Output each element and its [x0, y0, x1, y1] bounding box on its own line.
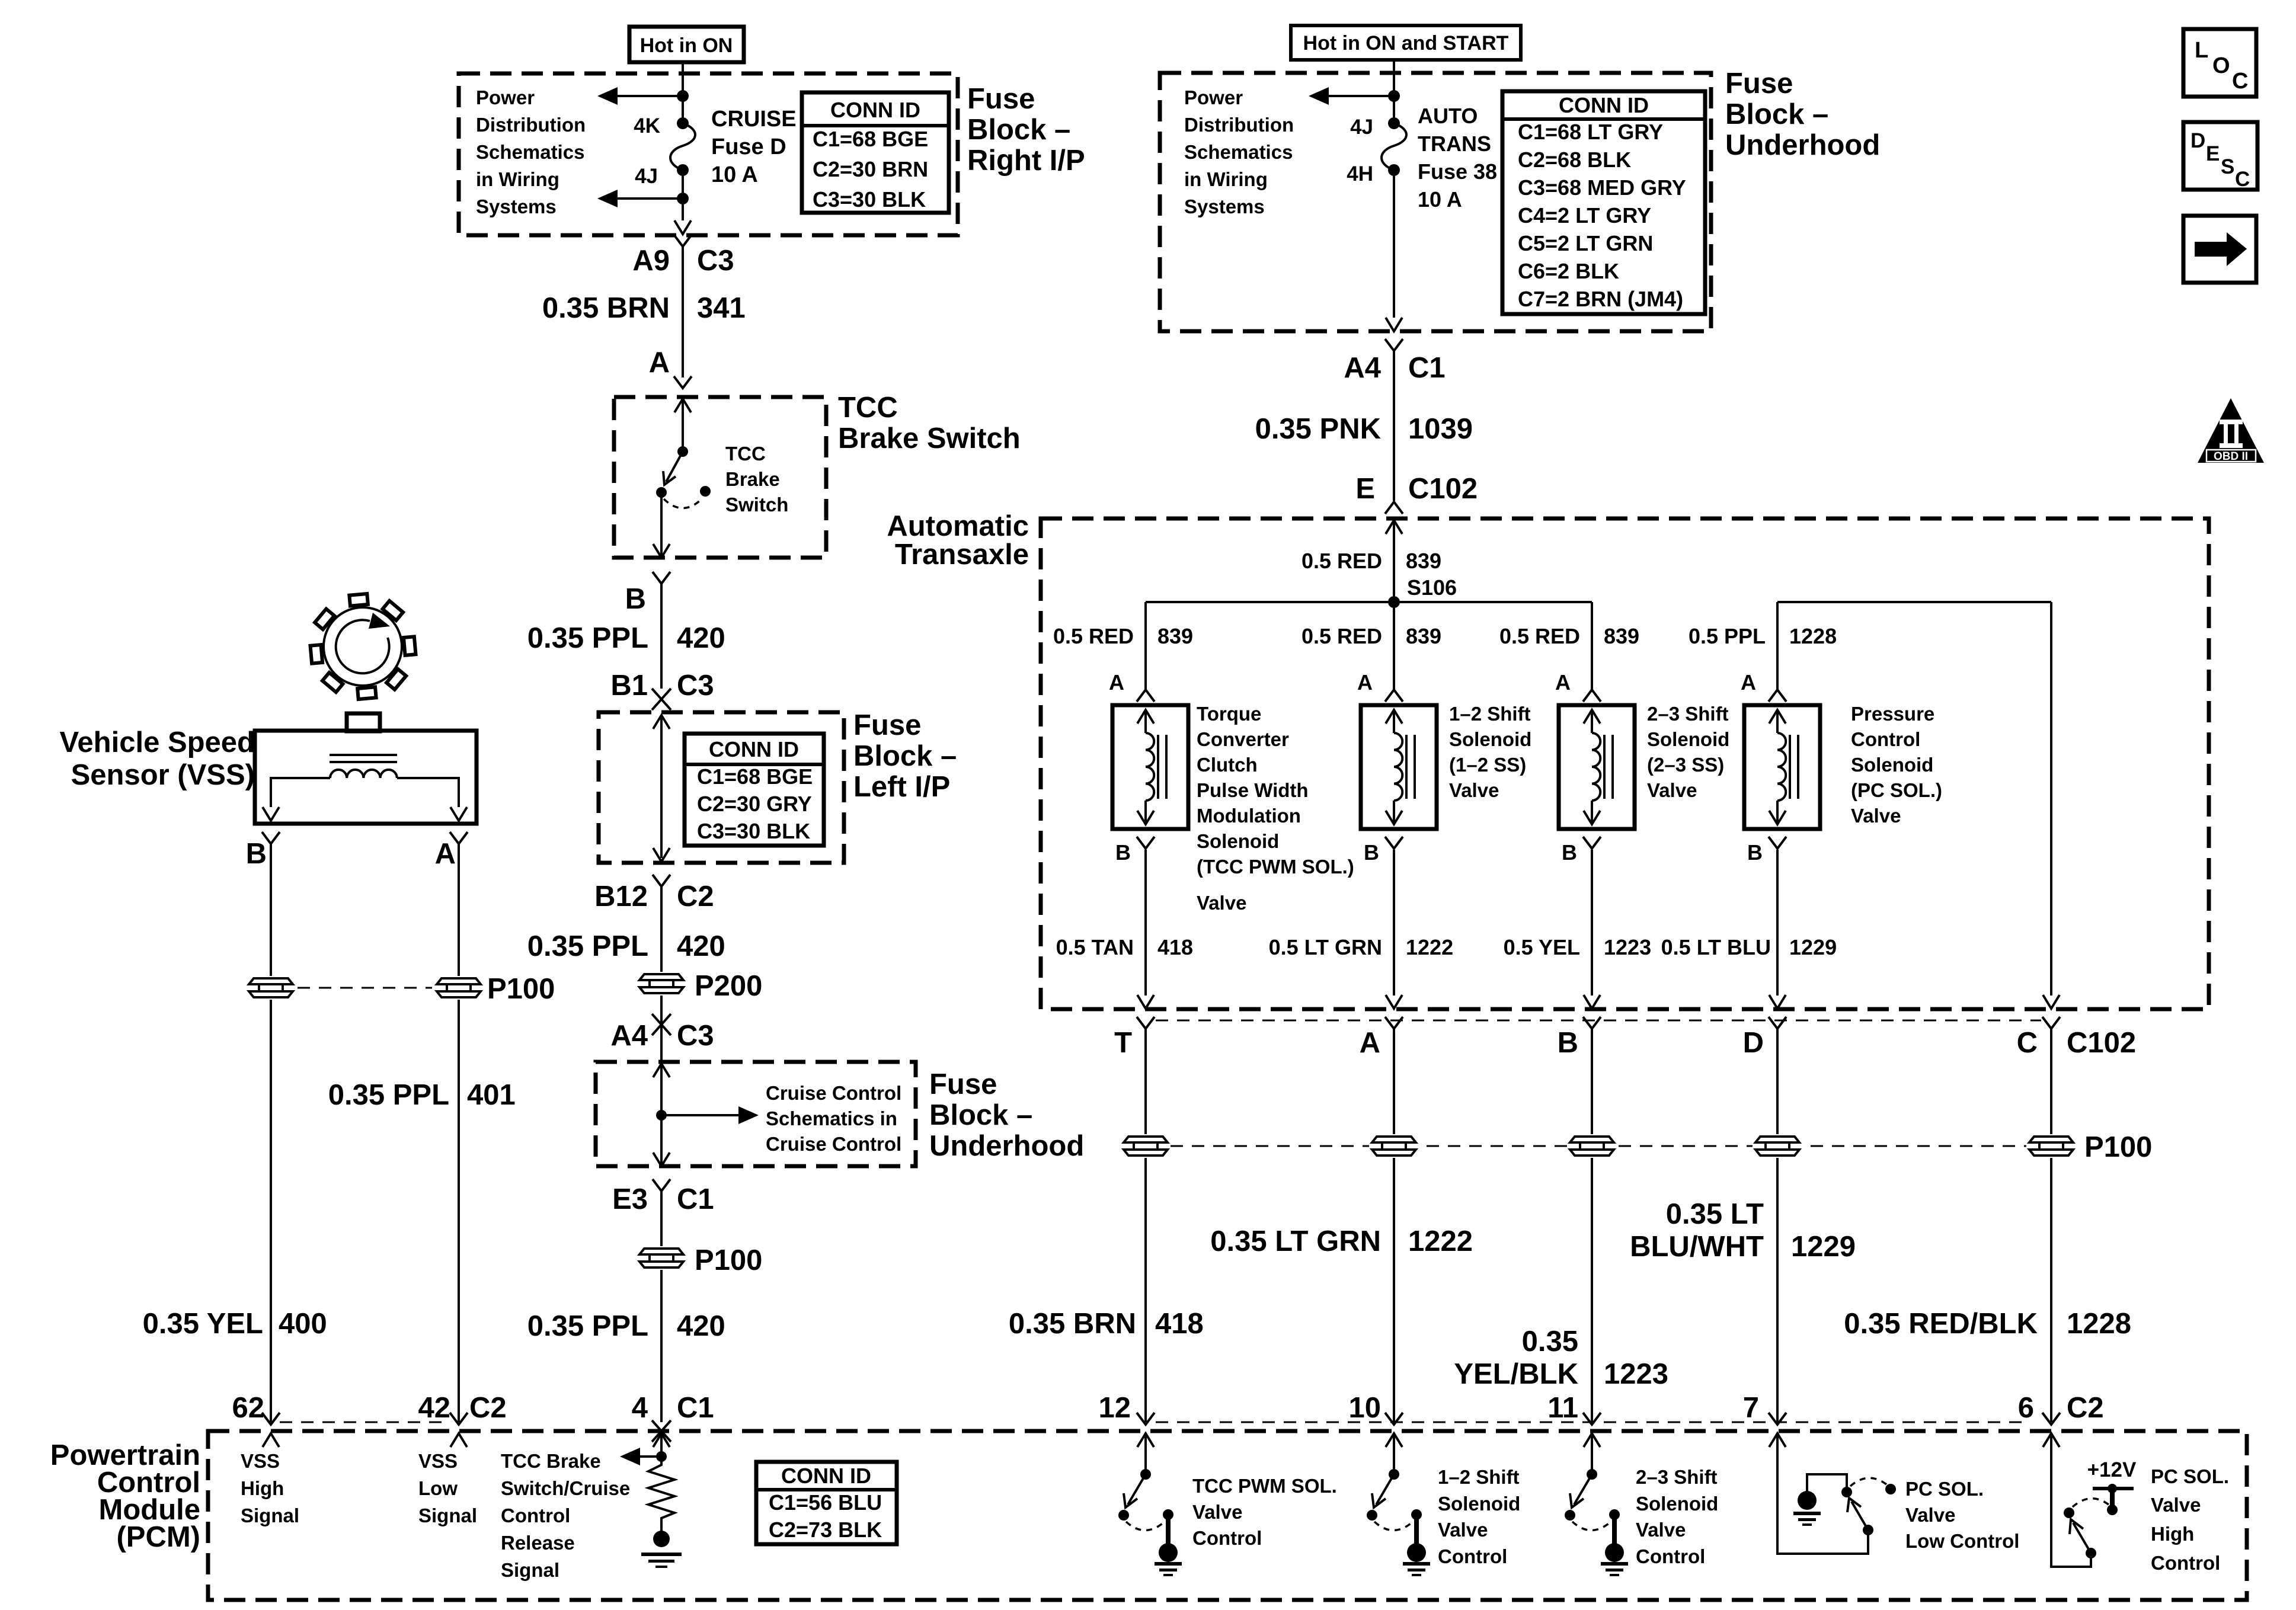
svg-text:A9: A9: [632, 245, 670, 277]
svg-text:(PC SOL.): (PC SOL.): [1851, 779, 1942, 801]
svg-text:C3: C3: [677, 1020, 714, 1052]
ground node dot: [653, 1531, 670, 1547]
svg-text:C3=68 MED GRY: C3=68 MED GRY: [1518, 175, 1686, 200]
icon OBD II triangle: [2198, 398, 2264, 463]
label Torque Converter Clutch PWM Solenoid: [1197, 703, 1354, 914]
svg-text:Valve: Valve: [1438, 1519, 1488, 1541]
svg-text:839: 839: [1406, 624, 1441, 648]
svg-text:Control: Control: [2151, 1552, 2220, 1574]
svg-text:P100: P100: [2084, 1131, 2152, 1163]
solenoid 1-2 shift (coil): [1361, 690, 1437, 849]
svg-text:Schematics: Schematics: [476, 141, 584, 163]
driver 1-2 shift solenoid (PCM): [1367, 1433, 1430, 1576]
connector P100 (center): [637, 1244, 762, 1276]
svg-text:C1=68 BGE: C1=68 BGE: [697, 764, 813, 789]
svg-text:Sensor (VSS): Sensor (VSS): [71, 759, 255, 791]
svg-text:11: 11: [1547, 1392, 1578, 1424]
svg-text:P100: P100: [487, 973, 555, 1005]
svg-text:0.5 LT GRN: 0.5 LT GRN: [1269, 935, 1382, 959]
svg-text:Block –: Block –: [929, 1099, 1032, 1131]
dashed box Fuse Block - Left I/P: [599, 712, 844, 863]
svg-text:Schematics: Schematics: [1184, 141, 1293, 163]
svg-text:C2=68 BLK: C2=68 BLK: [1518, 148, 1631, 172]
pin A4 / C1 labels: [1344, 352, 1445, 384]
pin C / C102 labels: [2017, 1027, 2137, 1059]
svg-text:1228: 1228: [1789, 624, 1837, 648]
svg-text:Right I/P: Right I/P: [967, 145, 1085, 177]
svg-text:Control: Control: [1851, 728, 1920, 750]
wire label 0.35 LT BLU/WHT 1229 (lower): [1630, 1198, 1856, 1263]
wire bus PPL 1228: [1777, 601, 2051, 603]
svg-text:Solenoid: Solenoid: [1851, 754, 1933, 776]
wire label 0.35 PPL 420 (lower): [527, 1310, 725, 1342]
svg-text:CRUISE: CRUISE: [711, 107, 797, 132]
arrow exit bottom Left I/P block: [653, 848, 670, 862]
wire label 0.35 BRN 341: [542, 292, 746, 324]
wire from fuse to underhood block exit: [1393, 170, 1395, 318]
svg-text:C1: C1: [677, 1392, 714, 1424]
svg-text:Fuse: Fuse: [1725, 68, 1793, 100]
icon box DESC: [2183, 122, 2257, 191]
VSS sensor body tab: [347, 713, 380, 731]
svg-text:1223: 1223: [1604, 1358, 1668, 1390]
svg-text:Brake: Brake: [725, 468, 780, 490]
TCC brake switch symbol: [656, 446, 711, 508]
svg-text:4H: 4H: [1347, 162, 1373, 185]
svg-text:Solenoid: Solenoid: [1449, 728, 1531, 750]
svg-text:C2=73 BLK: C2=73 BLK: [769, 1518, 882, 1542]
svg-text:1039: 1039: [1408, 413, 1473, 445]
solenoid pressure control (coil): [1744, 690, 1820, 849]
driver 2-3 shift solenoid (PCM): [1565, 1433, 1628, 1576]
wire drop 2-3 shift solenoid (RED 839): [1591, 602, 1593, 689]
svg-text:Valve: Valve: [1636, 1519, 1686, 1541]
svg-text:Systems: Systems: [1184, 196, 1265, 217]
svg-text:C102: C102: [2067, 1027, 2136, 1059]
svg-text:400: 400: [279, 1308, 327, 1340]
arrow exit bottom of right I/P block: [674, 220, 691, 234]
svg-text:C: C: [2235, 168, 2250, 191]
wire switch to box bottom: [660, 492, 663, 558]
pin B1 / C3 labels: [610, 670, 714, 702]
svg-text:839: 839: [1157, 624, 1193, 648]
wire label 0.35 BRN 418 (lower): [1009, 1308, 1204, 1340]
fuse AUTO TRANS Fuse 38 10A: [1382, 117, 1406, 176]
text Power Distribution Schematics in Wiring Systems (right fuse box): [1184, 87, 1294, 217]
label 1-2 Shift Solenoid Valve Control: [1438, 1466, 1520, 1567]
svg-text:Control: Control: [1636, 1545, 1705, 1567]
tone wheel gear (VSS): [311, 594, 416, 699]
driver PC SOL valve high control (PCM): [2043, 1433, 2134, 1567]
svg-text:in Wiring: in Wiring: [476, 168, 559, 190]
wire drop to C102 pin C: [2050, 602, 2052, 996]
svg-text:Valve: Valve: [2151, 1494, 2201, 1516]
svg-text:B12: B12: [594, 881, 648, 913]
dashed box Fuse Block - Underhood (top right): [1160, 73, 1711, 331]
wire entry arrow into TCC box: [674, 399, 691, 452]
node splice S106: [1388, 596, 1400, 608]
svg-text:(1–2 SS): (1–2 SS): [1449, 754, 1526, 776]
label box "Hot in ON": [629, 27, 744, 62]
svg-text:Transaxle: Transaxle: [895, 539, 1029, 571]
label 1-2 Shift Solenoid: [1449, 703, 1531, 801]
node junction lower (right I/P): [677, 193, 689, 204]
svg-text:10 A: 10 A: [1418, 187, 1462, 212]
title Fuse Block - Underhood: [1725, 68, 1880, 161]
svg-text:Fuse: Fuse: [853, 709, 921, 741]
wire VSS low (A column): [458, 844, 460, 1422]
svg-text:Release: Release: [501, 1532, 575, 1554]
svg-text:PC SOL.: PC SOL.: [2151, 1465, 2229, 1487]
svg-text:Valve: Valve: [1647, 779, 1697, 801]
svg-text:0.5 PPL: 0.5 PPL: [1689, 624, 1766, 648]
dashed box TCC Brake Switch: [614, 397, 826, 558]
svg-text:High: High: [2151, 1523, 2194, 1545]
wire BRN 341: [682, 247, 684, 377]
svg-text:0.35 YEL: 0.35 YEL: [143, 1308, 263, 1340]
svg-text:BLU/WHT: BLU/WHT: [1630, 1231, 1764, 1263]
wire from Hot in ON to fuse block: [682, 62, 684, 73]
svg-text:PC SOL.: PC SOL.: [1905, 1478, 1984, 1500]
dashed box Automatic Transaxle: [1041, 518, 2209, 1009]
svg-text:D: D: [2191, 129, 2205, 152]
svg-text:420: 420: [677, 622, 725, 654]
svg-text:839: 839: [1406, 549, 1441, 573]
svg-text:Hot in ON: Hot in ON: [640, 34, 733, 57]
svg-text:Pulse Width: Pulse Width: [1197, 779, 1309, 801]
svg-text:C2=30 GRY: C2=30 GRY: [697, 792, 812, 816]
wire drop pressure control solenoid (PPL 1228): [1776, 602, 1779, 689]
wire vertical inside underhood fuse block: [1393, 73, 1395, 123]
svg-text:C1=68 BGE: C1=68 BGE: [813, 127, 928, 151]
arrow to cruise control schematics: [661, 1106, 759, 1124]
svg-text:0.35 LT GRN: 0.35 LT GRN: [1210, 1225, 1381, 1257]
svg-text:0.35 LT: 0.35 LT: [1666, 1198, 1764, 1230]
svg-text:0.5 LT BLU: 0.5 LT BLU: [1661, 935, 1771, 959]
title Fuse Block - Underhood (left): [929, 1068, 1084, 1162]
svg-text:1–2 Shift: 1–2 Shift: [1438, 1466, 1520, 1488]
svg-text:TCC: TCC: [838, 392, 898, 424]
svg-text:Valve: Valve: [1851, 805, 1901, 827]
svg-text:Low: Low: [418, 1477, 458, 1499]
wire label 0.5 PPL 1228: [1689, 624, 1837, 648]
svg-text:Control: Control: [1438, 1545, 1507, 1567]
fine dashed connector line C2 (left): [280, 1422, 450, 1423]
svg-text:C2: C2: [677, 881, 714, 913]
VSS internal leads: [263, 778, 467, 821]
svg-text:AUTO: AUTO: [1418, 104, 1478, 128]
svg-text:TCC Brake: TCC Brake: [501, 1450, 601, 1472]
svg-text:(2–3 SS): (2–3 SS): [1647, 754, 1724, 776]
svg-text:Valve: Valve: [1905, 1504, 1955, 1526]
svg-text:TRANS: TRANS: [1418, 132, 1491, 156]
svg-text:0.35 PPL: 0.35 PPL: [527, 622, 648, 654]
wire label 0.35 PPL 401: [328, 1079, 516, 1111]
svg-text:Modulation: Modulation: [1197, 805, 1301, 827]
node junction top (right I/P): [677, 90, 689, 102]
arrow to power distribution (lower): [597, 190, 683, 207]
svg-text:Fuse: Fuse: [967, 83, 1035, 115]
svg-text:A: A: [1741, 670, 1756, 694]
wire label 0.5 LT GRN 1222: [1269, 935, 1453, 959]
wire label 0.5 TAN 418: [1056, 935, 1193, 959]
svg-text:C5=2 LT GRN: C5=2 LT GRN: [1518, 231, 1653, 255]
svg-text:Torque: Torque: [1197, 703, 1261, 725]
svg-text:4J: 4J: [635, 165, 658, 188]
svg-text:Fuse D: Fuse D: [711, 135, 786, 159]
svg-text:C3=30 BLK: C3=30 BLK: [813, 187, 926, 212]
svg-text:Valve: Valve: [1192, 1501, 1242, 1523]
connector forks C102 row: [1137, 1017, 2060, 1029]
wire label 0.35 PNK 1039: [1255, 413, 1473, 445]
svg-text:0.5 RED: 0.5 RED: [1302, 549, 1382, 573]
svg-text:0.5 YEL: 0.5 YEL: [1504, 935, 1580, 959]
svg-text:Fuse 38: Fuse 38: [1418, 159, 1497, 184]
svg-text:B: B: [246, 838, 267, 870]
svg-text:TCC PWM SOL.: TCC PWM SOL.: [1192, 1475, 1337, 1497]
svg-text:0.35 PPL: 0.35 PPL: [328, 1079, 449, 1111]
svg-text:Distribution: Distribution: [1184, 114, 1294, 136]
connector fork A4/C1: [1385, 339, 1403, 351]
svg-text:Solenoid: Solenoid: [1636, 1493, 1718, 1515]
svg-text:341: 341: [697, 292, 746, 324]
svg-text:C2: C2: [2067, 1392, 2104, 1424]
pin B12 / C2 labels: [594, 881, 714, 913]
svg-text:E: E: [2206, 142, 2220, 165]
svg-text:Cruise Control: Cruise Control: [766, 1082, 901, 1104]
wire label 0.5 RED 839 (above S106): [1302, 549, 1441, 573]
svg-text:A: A: [435, 838, 456, 870]
svg-text:E: E: [1355, 473, 1375, 505]
svg-text:0.35: 0.35: [1522, 1326, 1578, 1358]
svg-text:C3=30 BLK: C3=30 BLK: [697, 819, 810, 843]
svg-text:Clutch: Clutch: [1197, 754, 1258, 776]
svg-text:C7=2 BRN (JM4): C7=2 BRN (JM4): [1518, 287, 1683, 311]
svg-text:C1: C1: [1408, 352, 1446, 384]
svg-text:CONN ID: CONN ID: [781, 1464, 871, 1488]
svg-text:7: 7: [1743, 1392, 1759, 1424]
svg-text:0.35 PPL: 0.35 PPL: [527, 930, 648, 962]
svg-text:Automatic: Automatic: [887, 510, 1029, 542]
connector fork below Left I/P: [653, 875, 670, 886]
svg-text:0.35 PNK: 0.35 PNK: [1255, 413, 1381, 445]
wire vertical inside right I/P fuse block: [682, 73, 684, 123]
title Automatic Transaxle: [887, 510, 1029, 571]
svg-text:418: 418: [1155, 1308, 1204, 1340]
svg-text:A4: A4: [610, 1020, 648, 1052]
svg-text:+12V: +12V: [2087, 1458, 2137, 1481]
pin A9 / C3 labels: [632, 245, 734, 277]
wire label 0.35 YEL 400: [143, 1308, 327, 1340]
label CRUISE Fuse D 10 A: [711, 107, 797, 187]
icon box right-arrow: [2183, 216, 2256, 283]
svg-text:Valve: Valve: [1449, 779, 1499, 801]
arrow exit bottom underhood block: [1386, 318, 1402, 331]
svg-text:A: A: [1109, 670, 1124, 694]
svg-text:P100: P100: [695, 1244, 762, 1276]
wire label 0.5 RED 839 (col A): [1302, 624, 1441, 648]
svg-text:Solenoid: Solenoid: [1197, 830, 1279, 852]
svg-text:0.35 BRN: 0.35 BRN: [1009, 1308, 1136, 1340]
wire bus RED 839: [1146, 601, 1592, 603]
svg-text:C1=56 BLU: C1=56 BLU: [769, 1490, 882, 1515]
svg-text:E3: E3: [612, 1183, 648, 1215]
svg-text:B: B: [1364, 840, 1379, 865]
wire drop 1-2 shift solenoid (RED 839): [1393, 602, 1395, 689]
wire label 0.35 LT GRN 1222 (lower): [1210, 1225, 1473, 1257]
svg-text:418: 418: [1157, 935, 1193, 959]
wire TAN 418 (inside transaxle): [1144, 850, 1147, 996]
svg-text:VSS: VSS: [241, 1450, 280, 1472]
label PC SOL. Valve Low Control: [1905, 1478, 2019, 1552]
svg-text:Block –: Block –: [1725, 98, 1828, 130]
label 2-3 Shift Solenoid: [1647, 703, 1729, 801]
connector pair at PCM pin 4: [652, 1420, 671, 1442]
connector half at A: [674, 376, 692, 388]
svg-text:Switch: Switch: [725, 494, 788, 516]
svg-text:CONN ID: CONN ID: [1559, 93, 1649, 117]
connector pair B1/C3: [652, 689, 671, 710]
node junction pin 4: [656, 1451, 667, 1462]
VSS sensor box: [255, 731, 477, 824]
node junction cruise tap: [656, 1110, 667, 1121]
svg-text:VSS: VSS: [418, 1450, 458, 1472]
svg-text:B: B: [1747, 840, 1763, 865]
wire from Hot in ON and START: [1393, 60, 1395, 73]
wire from fuse to block exit: [682, 170, 684, 220]
wire drop TCC PWM solenoid (RED 839): [1144, 602, 1147, 689]
label TCC Brake Switch/Cruise Control Release Signal: [501, 1450, 630, 1581]
connector half at E (C102): [1385, 502, 1403, 514]
label Vehicle Speed Sensor (VSS): [59, 726, 255, 791]
wire LT BLU 1229 (inside transaxle): [1776, 850, 1779, 996]
wire label 0.5 LT BLU 1229: [1661, 935, 1837, 959]
icon box LOC (top right): [2183, 29, 2256, 97]
wire YEL 1223 (inside transaxle): [1591, 850, 1593, 996]
VSS coil: [330, 770, 397, 778]
svg-text:Pressure: Pressure: [1851, 703, 1934, 725]
arrow exits at transaxle bottom: [1137, 995, 2060, 1009]
svg-text:Solenoid: Solenoid: [1438, 1493, 1520, 1515]
svg-text:P200: P200: [695, 970, 762, 1002]
svg-text:(PCM): (PCM): [116, 1521, 200, 1553]
pin E / C102 labels: [1355, 473, 1478, 505]
svg-text:4K: 4K: [634, 114, 660, 137]
svg-text:Vehicle Speed: Vehicle Speed: [59, 726, 255, 758]
svg-text:0.35 BRN: 0.35 BRN: [542, 292, 670, 324]
svg-text:C102: C102: [1408, 473, 1478, 505]
driver PC SOL valve low control (PCM): [1769, 1433, 1896, 1554]
svg-text:B: B: [1115, 840, 1131, 865]
svg-text:Underhood: Underhood: [1725, 129, 1880, 161]
svg-text:C4=2 LT GRY: C4=2 LT GRY: [1518, 203, 1651, 228]
pin E3 / C1 labels: [612, 1183, 714, 1215]
svg-text:C2=30 BRN: C2=30 BRN: [813, 157, 928, 181]
pin A4 / C3 labels: [610, 1020, 714, 1052]
svg-text:4: 4: [632, 1392, 648, 1424]
svg-text:A: A: [1360, 1027, 1380, 1059]
label 2-3 Shift Solenoid Valve Control: [1636, 1466, 1718, 1567]
svg-text:Block –: Block –: [853, 740, 957, 772]
ground symbol (PCM resistor): [641, 1553, 682, 1568]
wire PPL 420 (middle): [660, 886, 663, 1062]
VSS core lines: [330, 755, 397, 762]
svg-text:Schematics in: Schematics in: [766, 1108, 897, 1129]
wire PNK 1039: [1393, 351, 1395, 501]
connector fork below TCC box: [653, 572, 670, 584]
PCM entry arrow pin 62: [263, 1433, 279, 1447]
svg-text:Distribution: Distribution: [476, 114, 586, 136]
resistor (PCM pull): [648, 1457, 674, 1531]
svg-text:0.5 RED: 0.5 RED: [1053, 624, 1134, 648]
svg-text:Signal: Signal: [418, 1505, 477, 1526]
svg-text:1222: 1222: [1408, 1225, 1473, 1257]
svg-text:L: L: [2195, 38, 2208, 63]
svg-text:(TCC PWM SOL.): (TCC PWM SOL.): [1197, 856, 1354, 878]
label Pressure Control Solenoid: [1851, 703, 1942, 827]
PCM pin 4 internal wire: [653, 1433, 670, 1457]
svg-text:10: 10: [1348, 1392, 1381, 1424]
connector P100 fine dashed row (right): [1171, 1145, 2027, 1147]
svg-text:1229: 1229: [1789, 935, 1837, 959]
svg-text:A: A: [649, 347, 670, 379]
svg-text:Converter: Converter: [1197, 728, 1289, 750]
wire label 0.35 RED/BLK 1228 (lower): [1844, 1308, 2131, 1340]
label PC SOL. Valve High Control: [2151, 1465, 2229, 1574]
svg-text:A: A: [1357, 670, 1373, 694]
svg-text:B: B: [1558, 1027, 1578, 1059]
pin 4 / C1 labels: [632, 1392, 714, 1424]
connector forks at PCM pins 62/42: [262, 1413, 280, 1425]
svg-text:T: T: [1114, 1027, 1132, 1059]
svg-text:2–3 Shift: 2–3 Shift: [1636, 1466, 1718, 1488]
connector pair A4/C3: [652, 1014, 671, 1035]
title Powertrain Control Module (PCM): [50, 1439, 200, 1553]
svg-text:839: 839: [1604, 624, 1639, 648]
svg-text:62: 62: [232, 1392, 264, 1424]
CONN ID table (Underhood): [1502, 91, 1705, 314]
pin 6 / C2 labels: [2018, 1392, 2104, 1424]
label AUTO TRANS Fuse 38 10 A: [1418, 104, 1497, 212]
wire PPL 420 (lower): [660, 1191, 663, 1422]
svg-text:S: S: [2221, 155, 2234, 178]
svg-text:10 A: 10 A: [711, 162, 758, 187]
svg-text:1228: 1228: [2067, 1308, 2131, 1340]
svg-text:O: O: [2212, 53, 2230, 78]
svg-text:S106: S106: [1407, 575, 1457, 600]
svg-text:420: 420: [677, 930, 725, 962]
fine dashed connector line C2 (right): [1156, 1422, 2027, 1423]
svg-text:TCC: TCC: [725, 443, 766, 465]
svg-text:C3: C3: [677, 670, 714, 702]
svg-text:C1=68 LT GRY: C1=68 LT GRY: [1518, 120, 1663, 144]
svg-text:A4: A4: [1344, 352, 1381, 384]
svg-text:Control: Control: [501, 1505, 570, 1526]
svg-text:Systems: Systems: [476, 196, 557, 217]
svg-text:C3: C3: [697, 245, 734, 277]
CONN ID table (Right I/P): [802, 92, 949, 213]
label VSS Low Signal: [418, 1450, 477, 1526]
connector P200: [637, 970, 762, 1002]
svg-text:0.35 RED/BLK: 0.35 RED/BLK: [1844, 1308, 2038, 1340]
driver TCC PWM SOL (PCM): [1118, 1433, 1182, 1576]
svg-text:A: A: [1555, 670, 1571, 694]
svg-text:in Wiring: in Wiring: [1184, 168, 1268, 190]
wire label 0.35 YEL/BLK 1223 (lower): [1454, 1326, 1668, 1390]
svg-text:0.35 PPL: 0.35 PPL: [527, 1310, 648, 1342]
svg-text:Signal: Signal: [501, 1559, 559, 1581]
svg-text:1222: 1222: [1406, 935, 1453, 959]
